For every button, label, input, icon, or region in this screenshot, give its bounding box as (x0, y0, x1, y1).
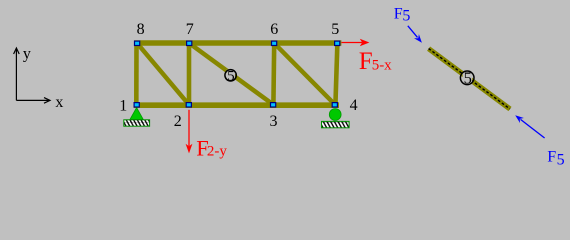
svg-text:5: 5 (227, 69, 235, 85)
svg-text:5: 5 (464, 69, 472, 88)
svg-text:5: 5 (331, 21, 339, 38)
svg-text:3: 3 (270, 113, 278, 130)
svg-text:x: x (55, 94, 63, 111)
svg-text:5-x: 5-x (372, 57, 392, 73)
svg-text:F: F (394, 5, 403, 22)
svg-text:8: 8 (137, 21, 145, 38)
svg-text:y: y (23, 45, 31, 62)
svg-text:2: 2 (174, 113, 182, 130)
svg-text:4: 4 (350, 97, 358, 114)
svg-text:6: 6 (270, 21, 278, 38)
svg-text:1: 1 (119, 97, 127, 114)
svg-text:7: 7 (186, 21, 194, 38)
svg-text:5: 5 (402, 8, 410, 25)
svg-text:5: 5 (557, 152, 565, 169)
svg-text:F: F (359, 48, 373, 75)
svg-text:F: F (547, 149, 556, 166)
svg-text:2-y: 2-y (207, 144, 227, 160)
